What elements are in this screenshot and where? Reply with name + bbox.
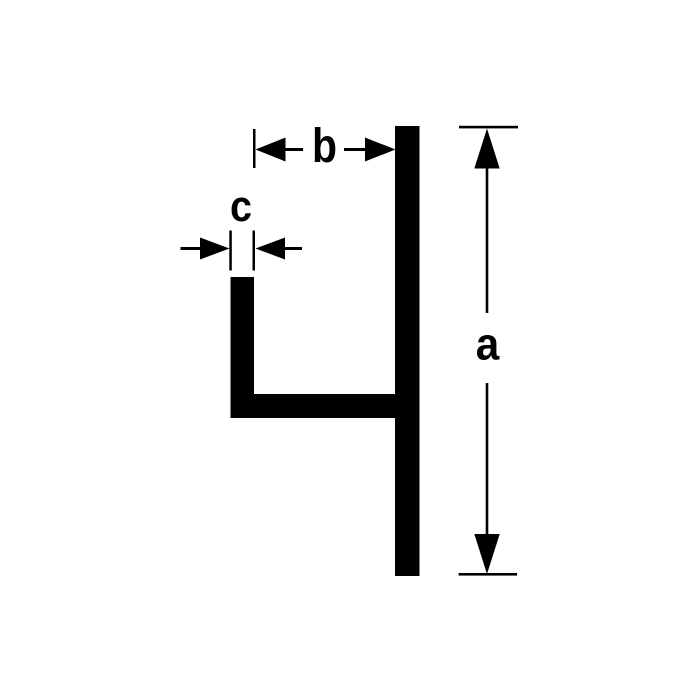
svg-text:c: c — [230, 182, 252, 231]
right tail — [285, 247, 303, 250]
svg-text:a: a — [476, 319, 500, 370]
upper line — [486, 165, 489, 313]
up arrowhead — [474, 129, 499, 169]
right arrowhead — [365, 138, 396, 162]
dimension a — [459, 126, 518, 576]
left tail — [285, 148, 303, 151]
left tail — [181, 247, 201, 250]
h-profile cross-section — [231, 126, 420, 576]
svg-text:b: b — [312, 120, 337, 173]
right tail — [344, 148, 366, 151]
left tick — [229, 231, 232, 271]
bottom tick — [459, 573, 517, 576]
tick — [253, 129, 256, 168]
left arrowhead — [200, 238, 230, 260]
dimension b — [253, 120, 396, 173]
lower line — [486, 383, 489, 538]
dimension c — [181, 182, 303, 271]
right arrowhead — [256, 238, 286, 260]
top tick — [459, 126, 518, 129]
right tick — [253, 231, 256, 271]
left arrowhead — [256, 138, 286, 162]
down arrowhead — [474, 534, 499, 574]
